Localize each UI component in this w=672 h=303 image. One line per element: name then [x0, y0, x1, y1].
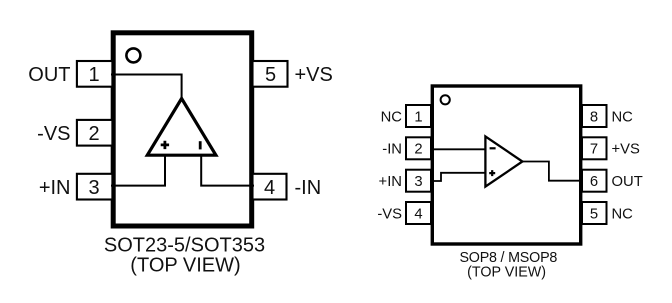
package U1 outline SOT23-5/SOT353 — [113, 33, 252, 226]
wire pin1 to op-amp output (U1) — [111, 75, 182, 101]
pin-1 indicator circle (U1) — [126, 48, 140, 62]
svg-text:4: 4 — [414, 206, 422, 222]
svg-text:+VS: +VS — [295, 64, 333, 86]
pin 5 box (U1) — [253, 61, 288, 87]
svg-text:NC: NC — [612, 109, 634, 125]
pin 1 box (U1) — [77, 61, 113, 87]
svg-text:NC: NC — [612, 206, 634, 222]
package U2 outline SOP8/MSOP8 — [432, 86, 580, 244]
pin label +VS (U1 pin 5) — [295, 64, 333, 86]
svg-text:-IN: -IN — [295, 177, 322, 199]
svg-text:+IN: +IN — [379, 174, 402, 190]
pin 7 box (U2) — [582, 137, 607, 159]
pin label +VS (U2 pin 7) — [612, 142, 641, 158]
svg-text:4: 4 — [264, 177, 275, 199]
pin 4 box (U2) — [406, 202, 431, 224]
pin-1 indicator circle (U2) — [441, 95, 450, 104]
package U1 subtitle (TOP VIEW) — [130, 255, 240, 277]
op-amp A1 (U1, pointing up) — [147, 99, 216, 156]
svg-text:3: 3 — [414, 174, 422, 190]
pin 2 box (U1) — [77, 120, 113, 146]
pin label OUT (U1 pin 1) — [28, 64, 70, 86]
svg-text:6: 6 — [590, 174, 598, 190]
svg-text:+VS: +VS — [612, 142, 641, 158]
pin label NC (U2 pin 8) — [612, 109, 634, 125]
pin 3 box (U1) — [77, 174, 113, 200]
svg-text:OUT: OUT — [28, 64, 70, 86]
wire op-amp output to pin6 (U2) — [522, 162, 581, 181]
pin label NC (U2 pin 1) — [381, 109, 403, 125]
svg-text:5: 5 — [265, 64, 276, 86]
pin 5 box (U2) — [582, 202, 607, 224]
wire pin2 to op-amp inverting input (U2) — [432, 148, 485, 150]
package U2 title SOP8 / MSOP8 — [459, 250, 557, 266]
wire pin3 to op-amp non-inverting input (U2) — [432, 173, 485, 181]
svg-text:-VS: -VS — [377, 206, 402, 222]
svg-text:-VS: -VS — [37, 123, 70, 145]
svg-text:SOT23-5/SOT353: SOT23-5/SOT353 — [104, 235, 265, 257]
svg-text:1: 1 — [88, 64, 99, 86]
pin label NC (U2 pin 5) — [612, 206, 634, 222]
pin label -IN (U1 pin 4) — [295, 177, 322, 199]
pin label +IN (U1 pin 3) — [39, 177, 71, 199]
svg-text:OUT: OUT — [612, 174, 643, 190]
svg-text:NC: NC — [381, 109, 403, 125]
wire pin3 to op-amp non-inverting input (U1) — [111, 155, 165, 186]
pin 3 box (U2) — [406, 170, 431, 192]
pin label OUT (U2 pin 6) — [612, 174, 643, 190]
svg-text:(TOP VIEW): (TOP VIEW) — [467, 264, 546, 280]
op-amp A2 (U2, pointing right) — [485, 136, 522, 186]
svg-text:7: 7 — [590, 142, 598, 158]
pin label -VS (U2 pin 4) — [377, 206, 402, 222]
svg-text:1: 1 — [414, 109, 422, 125]
package U2 subtitle (TOP VIEW) — [467, 264, 546, 280]
svg-text:2: 2 — [414, 142, 422, 158]
svg-text:-IN: -IN — [382, 142, 402, 158]
pin label +IN (U2 pin 3) — [379, 174, 402, 190]
package U1 title SOT23-5/SOT353 — [104, 235, 265, 257]
svg-text:+IN: +IN — [39, 177, 71, 199]
svg-text:8: 8 — [590, 109, 598, 125]
wire op-amp inverting input to pin4 (U1) — [201, 155, 254, 186]
pin 2 box (U2) — [406, 137, 431, 159]
pin 1 box (U2) — [406, 105, 431, 127]
pin label -IN (U2 pin 2) — [382, 142, 402, 158]
svg-text:3: 3 — [88, 177, 99, 199]
pin 4 box (U1) — [253, 174, 287, 200]
pin 6 box (U2) — [582, 170, 607, 192]
svg-text:(TOP VIEW): (TOP VIEW) — [130, 255, 240, 277]
pin 8 box (U2) — [582, 105, 607, 127]
svg-text:5: 5 — [590, 206, 598, 222]
pin label -VS (U1 pin 2) — [37, 123, 70, 145]
svg-text:2: 2 — [88, 123, 99, 145]
